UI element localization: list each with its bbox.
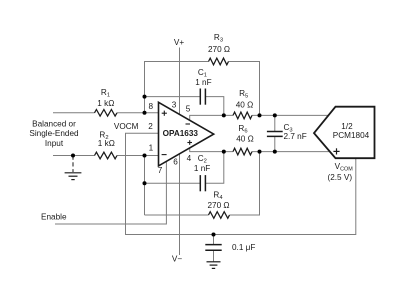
svg-text:Enable: Enable (41, 212, 67, 221)
wire R3 right side down to OUT- line (229, 62, 260, 116)
wire VOCM pin 2 routing to PCM1804 VCOM (126, 133, 356, 234)
node OUT+ C2 junction (222, 150, 226, 154)
wire R5 to PCM1804 top input (252, 114, 329, 116)
ground at input (65, 173, 82, 180)
PCM1804 + sign (VCOM pin) (333, 148, 339, 154)
svg-text:OPA1633: OPA1633 (163, 129, 199, 138)
op-amp input - sign (pin 1) (162, 154, 167, 156)
svg-text:1 nF: 1 nF (194, 164, 210, 173)
svg-text:7: 7 (158, 166, 163, 175)
wire C3 bottom lead (274, 137, 276, 152)
svg-text:(2.5 V): (2.5 V) (328, 173, 353, 182)
wire pin1 node down feedback leg (144, 156, 146, 216)
node pin8 / R1 / R3 junction (143, 111, 147, 115)
resistor R1 (95, 110, 118, 117)
wire top input to R1 (53, 112, 95, 114)
wire pin 6 down to V- (179, 154, 181, 255)
svg-text:1/2: 1/2 (341, 122, 353, 131)
wire C2 right side up to OUT+ line (205, 152, 223, 184)
node OUT+ R4 junction (258, 150, 262, 154)
svg-text:270 Ω: 270 Ω (208, 45, 230, 54)
svg-text:2: 2 (148, 122, 153, 131)
wire R1 to op-amp pin 8 (117, 112, 159, 114)
resistor R6 (233, 148, 252, 155)
wire R6 to PCM1804 bottom input (252, 151, 330, 153)
wire dashed ground lead at input (72, 156, 74, 173)
ADC U2 1/2 PCM1804 (314, 107, 375, 159)
svg-text:PCM1804: PCM1804 (333, 131, 370, 140)
node pin1 / R2 / R4 junction (143, 154, 147, 158)
resistor R4 (209, 212, 230, 219)
svg-text:V+: V+ (174, 38, 184, 47)
wire R4 bottom feedback run (145, 214, 209, 216)
svg-text:40 Ω: 40 Ω (236, 134, 254, 143)
node input ground junction (71, 154, 75, 158)
svg-text:V−: V− (172, 254, 182, 263)
wire pin8 node up to top feedback rail (145, 62, 209, 113)
wire C1 right side down to OUT- line (205, 97, 223, 116)
wire OUT+ (pin 4) to R6 (190, 148, 233, 152)
op-amp U1 OPA1633 (159, 102, 214, 166)
svg-text:270 Ω: 270 Ω (207, 201, 229, 210)
wire R2 to op-amp pin 1 (117, 155, 159, 157)
svg-text:Balanced or: Balanced or (32, 119, 76, 128)
wire 0.1uF cap to ground lead (213, 251, 215, 262)
wire C1 branch from pin8 node (145, 96, 201, 98)
node pin1 C2 tap junction (143, 181, 147, 185)
node pin8 C1 tap junction (143, 95, 147, 99)
wire OUT- (pin 5) to R5 (190, 115, 233, 120)
capacitor C1 (200, 89, 205, 105)
wire C2 branch (145, 182, 201, 184)
wire C3 top lead (274, 115, 276, 131)
resistor R3 (209, 58, 229, 65)
node VOCM 0.1uF junction (212, 233, 216, 237)
op-amp output + sign (pin 4) (187, 140, 192, 145)
wire bottom input to R2 (53, 155, 95, 157)
node OUT- C1 junction (222, 113, 226, 117)
wire V+ supply to pin 3 (179, 48, 181, 115)
ground at 0.1uF cap (207, 262, 221, 269)
svg-text:8: 8 (149, 102, 154, 111)
svg-text:1 kΩ: 1 kΩ (97, 99, 114, 108)
node OUT- C3 junction (273, 113, 277, 117)
svg-text:4: 4 (187, 154, 192, 163)
wire 0.1uF cap top lead (213, 235, 215, 245)
svg-text:3: 3 (172, 101, 177, 110)
resistor R2 (95, 152, 118, 159)
wire R4 right side up to OUT+ line (230, 152, 260, 215)
node OUT- R3 junction (258, 113, 262, 117)
svg-text:2.7 nF: 2.7 nF (284, 132, 307, 141)
op-amp input + sign (pin 8) (162, 111, 167, 116)
op-amp output - sign (pin 5) (186, 123, 191, 125)
svg-text:1: 1 (149, 143, 154, 152)
svg-text:5: 5 (186, 105, 191, 114)
svg-text:Single-Ended: Single-Ended (29, 129, 79, 138)
svg-text:VOCM: VOCM (114, 122, 139, 131)
svg-text:1 kΩ: 1 kΩ (98, 139, 115, 148)
capacitor C3 (267, 132, 283, 137)
wire Enable to pin 7 (55, 161, 166, 224)
svg-text:Input: Input (45, 139, 64, 148)
capacitor 0.1uF (205, 245, 221, 251)
capacitor C2 (200, 175, 205, 191)
svg-text:40 Ω: 40 Ω (236, 100, 254, 109)
svg-text:0.1 μF: 0.1 μF (232, 243, 255, 252)
resistor R5 (233, 112, 252, 119)
svg-text:1 nF: 1 nF (195, 78, 211, 87)
node OUT+ C3 junction (273, 150, 277, 154)
svg-text:6: 6 (173, 158, 178, 167)
